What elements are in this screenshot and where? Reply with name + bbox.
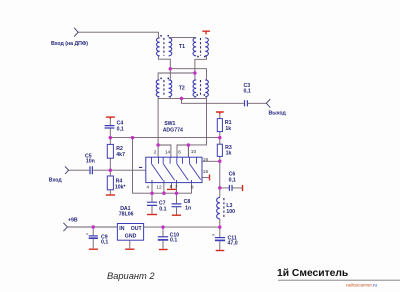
svg-text:2: 2: [154, 150, 157, 156]
svg-text:1й Смеситель: 1й Смеситель: [277, 268, 348, 279]
svg-text:10: 10: [191, 149, 197, 155]
svg-text:15: 15: [203, 169, 209, 175]
svg-text:12: 12: [156, 184, 162, 190]
svg-text:Вариант 2: Вариант 2: [107, 271, 155, 281]
svg-text:4k7: 4k7: [116, 152, 125, 158]
svg-text:SW1: SW1: [164, 121, 175, 127]
svg-text:16: 16: [203, 157, 209, 163]
svg-text:0,1: 0,1: [229, 178, 236, 184]
svg-text:14: 14: [165, 149, 171, 155]
svg-text:10k*: 10k*: [115, 185, 127, 191]
svg-text:IN: IN: [119, 226, 124, 232]
svg-text:C8: C8: [184, 199, 191, 205]
svg-text:radioscanner.ru: radioscanner.ru: [346, 283, 378, 288]
svg-text:0,1: 0,1: [117, 126, 124, 132]
svg-text:T2: T2: [179, 86, 185, 92]
svg-text:0,1: 0,1: [244, 89, 251, 95]
svg-text:100: 100: [226, 209, 235, 215]
svg-text:7: 7: [175, 184, 178, 190]
svg-text:1k: 1k: [225, 126, 231, 132]
svg-text:6: 6: [178, 150, 181, 156]
svg-text:T1: T1: [179, 44, 185, 50]
svg-text:Вход (на ДПФ): Вход (на ДПФ): [51, 41, 88, 47]
svg-text:0.1: 0.1: [159, 207, 166, 213]
svg-text:1k: 1k: [226, 151, 232, 157]
svg-text:Вход: Вход: [49, 178, 63, 184]
svg-text:GND: GND: [125, 234, 137, 240]
svg-text:47,0: 47,0: [228, 241, 238, 247]
svg-text:9: 9: [191, 184, 194, 190]
svg-text:Выход: Выход: [269, 111, 287, 117]
svg-text:OUT: OUT: [131, 226, 143, 232]
svg-text:8: 8: [170, 184, 173, 190]
svg-text:4: 4: [146, 184, 149, 190]
svg-text:+9В: +9В: [68, 218, 78, 224]
svg-text:10n: 10n: [86, 159, 95, 165]
svg-text:78L06: 78L06: [119, 212, 134, 218]
svg-text:0.1: 0.1: [170, 238, 177, 244]
svg-text:ADG774: ADG774: [163, 127, 183, 133]
svg-text:1n: 1n: [185, 205, 191, 211]
svg-text:0,1: 0,1: [101, 240, 108, 246]
